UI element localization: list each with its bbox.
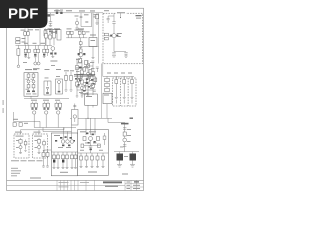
box C second column xyxy=(24,140,27,152)
socket cell dividers xyxy=(120,78,128,106)
capacitor C131 xyxy=(79,46,82,47)
box C contents xyxy=(19,138,22,154)
capacitor C153 xyxy=(91,61,94,62)
resistor R157 xyxy=(76,82,79,86)
transistor QA3 xyxy=(70,140,74,144)
resistor R136 xyxy=(79,47,82,52)
chain wire xyxy=(80,38,82,46)
wire to right xyxy=(81,45,99,47)
dark node blob2 xyxy=(86,82,89,84)
ground G5 xyxy=(124,56,127,57)
svg-text:PDF: PDF xyxy=(8,6,39,23)
K3 label xyxy=(104,95,109,96)
box A group GA3 xyxy=(71,152,78,169)
right chain wire xyxy=(124,123,126,152)
socket element S2 xyxy=(123,76,126,103)
transistor group T1 xyxy=(31,102,38,128)
bus wire S2 xyxy=(43,125,72,132)
ground G11 xyxy=(92,58,95,59)
ground G9 xyxy=(51,57,54,58)
transistor QB1 xyxy=(89,137,93,147)
drop R22 xyxy=(27,45,30,58)
module box A xyxy=(51,133,77,176)
labels enclosure right xyxy=(104,10,142,18)
box B bottom element E5 xyxy=(102,153,105,168)
long wire pair xyxy=(101,64,102,119)
drop R23 xyxy=(34,45,37,57)
transistor group T2 xyxy=(43,102,50,128)
transistor QA2 xyxy=(66,140,70,144)
wire drop C101 xyxy=(50,13,52,22)
tier label xyxy=(23,62,40,69)
PSU internals column2 xyxy=(32,73,35,93)
relay box K3 xyxy=(103,93,112,103)
label J3 xyxy=(56,69,61,77)
box B inner specks xyxy=(80,143,103,151)
resistor R167 xyxy=(83,87,86,91)
transistor QR1 xyxy=(123,138,127,142)
ground G10 xyxy=(79,59,82,61)
capacitor C101 xyxy=(49,22,52,26)
capacitor CR2 xyxy=(123,145,126,146)
stub wires R111 xyxy=(25,28,28,32)
module box B xyxy=(78,130,109,176)
extra mid specks xyxy=(76,59,95,94)
resistor RB1 xyxy=(83,137,86,141)
transistor Q153 xyxy=(78,79,81,82)
resistor R201 xyxy=(104,33,108,36)
label box C xyxy=(16,136,24,137)
labels K1 xyxy=(90,35,96,42)
box D contents xyxy=(37,138,40,154)
capacitor C202 xyxy=(112,53,115,55)
drop R26 xyxy=(46,45,49,56)
label row P xyxy=(25,69,37,70)
resistor R104 xyxy=(96,13,99,23)
bottom label mid xyxy=(80,93,86,94)
title block right cell lines xyxy=(125,184,144,187)
connector P1 xyxy=(16,38,20,44)
diode D101 xyxy=(48,14,55,16)
socket element S3 xyxy=(131,76,134,103)
capacitor C201 xyxy=(112,22,115,34)
PSU drop wire xyxy=(30,96,32,98)
margin ticks xyxy=(3,100,4,113)
PSU inner specks xyxy=(26,79,34,90)
label J2 xyxy=(45,69,50,78)
text labels Q101 xyxy=(75,16,84,31)
resistor R121 xyxy=(45,34,48,39)
wire link R xyxy=(108,118,125,122)
box B right vertical xyxy=(103,133,106,145)
ground G4 xyxy=(112,56,116,57)
net labels top rail xyxy=(54,10,95,11)
ground G1 xyxy=(49,26,52,27)
bus wire A xyxy=(16,44,53,46)
connector J3 xyxy=(56,79,63,94)
bars on loop left xyxy=(80,16,83,17)
box A mid wire xyxy=(51,151,77,153)
box B mid wire upper xyxy=(84,145,100,147)
labels Q201 xyxy=(117,33,122,37)
resistor R159 xyxy=(79,59,82,63)
K2 antenna mark xyxy=(86,92,88,96)
specks near node B xyxy=(94,14,98,17)
dashed enclosure (deflection unit) xyxy=(103,13,142,64)
bus wire under PSU xyxy=(24,98,69,100)
Q201 wing marks xyxy=(110,35,118,37)
PSU text xyxy=(26,93,37,96)
IC U1 xyxy=(57,30,61,41)
resistor RB2 xyxy=(97,137,100,141)
cluster M1 labels xyxy=(44,29,55,30)
resistor R112 xyxy=(27,32,30,35)
resistor R168 xyxy=(94,78,97,82)
label above box C xyxy=(15,132,22,133)
labels left bus xyxy=(13,119,28,124)
heavy bus wire xyxy=(74,75,95,77)
label under Q121 xyxy=(50,61,57,66)
capacitor C204 xyxy=(107,16,114,23)
capacitor C203 xyxy=(124,53,127,56)
label above box D xyxy=(34,132,41,133)
capacitor C105 xyxy=(85,21,88,22)
PDF badge xyxy=(0,0,48,28)
wire K1 up xyxy=(92,13,94,38)
resistor R113 xyxy=(44,31,47,37)
box D specks xyxy=(35,140,38,148)
resistor R158 xyxy=(92,84,95,88)
resistor R151 xyxy=(76,66,79,70)
wire into enclosure C xyxy=(21,128,65,135)
resistor R134 xyxy=(82,31,85,34)
transistor Q101 xyxy=(75,18,78,28)
box B bottom element E4 xyxy=(96,153,99,168)
mid column labels xyxy=(78,61,93,86)
revision table dividers xyxy=(57,180,137,190)
box B bottom element E3 xyxy=(91,153,94,168)
group Q141 xyxy=(64,70,74,90)
cluster M2 drops xyxy=(68,34,84,37)
stub wire xyxy=(120,13,121,18)
resistor R123 xyxy=(53,33,56,39)
resistor RB3 xyxy=(81,144,84,148)
box C specks xyxy=(16,140,19,148)
capacitor CB1 xyxy=(89,146,92,153)
link resistor R135 xyxy=(79,42,82,45)
resistor R111 xyxy=(24,32,27,35)
transistor Q121 xyxy=(50,47,56,57)
loop wire L1 xyxy=(81,13,92,27)
capacitor C152 xyxy=(96,67,99,72)
box B labels xyxy=(80,131,96,132)
transistor row: labels xyxy=(31,100,60,101)
tier circles Q21 Q22 xyxy=(34,58,40,65)
net labels row xyxy=(24,43,45,44)
box A group GA1 xyxy=(53,152,60,169)
resistor RR1 xyxy=(123,132,126,136)
transistor group T3 xyxy=(55,102,62,128)
resistor R202 xyxy=(104,37,108,40)
title block mid line xyxy=(7,184,125,186)
connector J2 xyxy=(44,81,51,95)
right chain labels xyxy=(120,123,131,148)
resistor R162 xyxy=(19,123,22,127)
box B mid wire xyxy=(78,152,109,154)
left of box A elements xyxy=(42,150,51,167)
box A bottom label xyxy=(60,172,68,173)
enclosure label xyxy=(116,12,126,15)
capacitor C154 xyxy=(93,90,96,91)
box B top wires xyxy=(86,118,95,135)
wire drops under badge xyxy=(25,29,46,46)
resistor R122 xyxy=(49,35,52,39)
transistor Q151 xyxy=(80,86,83,89)
ground G2 xyxy=(75,28,78,29)
resistor R152 xyxy=(81,70,84,74)
resistor RB4 xyxy=(98,144,101,148)
cluster M2 labels xyxy=(67,28,90,32)
wire emitter Q201 xyxy=(113,38,115,52)
resistor R153 xyxy=(87,64,90,68)
resistor R165 xyxy=(89,70,92,74)
module box PSU xyxy=(24,73,38,97)
cluster M1 wires xyxy=(46,31,54,45)
bank bus wire xyxy=(103,75,134,77)
left bus wire xyxy=(14,112,41,128)
box B dark cluster xyxy=(86,133,96,151)
resistor R131 xyxy=(67,31,70,34)
PSU internals column1 xyxy=(27,73,30,93)
labels P1 xyxy=(22,38,26,43)
transistor Q201 xyxy=(112,34,116,38)
box A group GA2 xyxy=(62,152,69,169)
wire links mid xyxy=(77,63,96,85)
bank labels xyxy=(107,73,132,74)
resistor R155 xyxy=(87,78,90,82)
resistor R164 xyxy=(83,68,86,72)
notes text xyxy=(11,168,21,177)
label box D xyxy=(34,136,42,137)
box D second column xyxy=(43,140,46,152)
posistor T1 xyxy=(17,45,20,67)
labels under badge xyxy=(28,29,39,30)
ground G16 xyxy=(65,90,73,91)
K2 pins xyxy=(88,105,93,107)
resistor R154 xyxy=(81,80,84,84)
box A dark cluster xyxy=(55,136,75,146)
dashed box D xyxy=(33,134,48,158)
label PT pair xyxy=(122,156,128,175)
bus wire S xyxy=(34,127,76,129)
resistor R161 xyxy=(13,123,16,127)
transistor Q152 xyxy=(86,72,89,75)
title text xyxy=(30,178,140,190)
box B bottom element E1 xyxy=(80,153,83,168)
capacitor CR1 xyxy=(123,128,126,129)
dense label cluster xyxy=(48,29,61,34)
relay K1 xyxy=(89,38,97,47)
box A top wires xyxy=(64,128,72,140)
K2 label xyxy=(86,96,92,97)
dense cluster specks xyxy=(75,78,95,92)
dashed box C xyxy=(14,134,29,158)
transistor Q131 xyxy=(78,53,86,59)
stacked resistor RS1 xyxy=(105,76,109,91)
relay box K2 xyxy=(85,94,98,105)
box B bottom label xyxy=(88,172,97,173)
socket element S1 xyxy=(115,76,118,103)
drop R24 xyxy=(37,45,40,58)
resistor R133 xyxy=(78,31,81,34)
wire base Q201 xyxy=(108,35,112,37)
resistor R166 xyxy=(78,75,81,79)
wire K1 down xyxy=(92,47,94,58)
power transistor PT1 xyxy=(117,152,124,168)
label R111 xyxy=(21,30,25,31)
mid column wires xyxy=(77,58,93,96)
transistor QA1 xyxy=(61,140,65,144)
wire in enclosure xyxy=(113,13,115,22)
fuse F1 on rail xyxy=(56,10,64,14)
caption line xyxy=(11,160,43,161)
transistor Q154 xyxy=(83,83,86,86)
box A labels xyxy=(54,135,71,148)
mid column grounds xyxy=(76,95,90,97)
resistor R132 xyxy=(70,31,73,34)
dark node blob1 xyxy=(79,67,82,69)
CRT socket dashed container xyxy=(113,78,137,106)
border frame xyxy=(7,8,144,190)
cluster M2 bus xyxy=(66,37,87,39)
top rail wire xyxy=(46,12,103,14)
label below socket xyxy=(130,118,134,119)
ground G3 xyxy=(95,23,98,24)
bus wire bottom right xyxy=(114,151,139,153)
drop R25 xyxy=(43,45,46,57)
drop R21 xyxy=(24,45,27,57)
resistor R160 xyxy=(85,61,88,65)
box B bottom element E2 xyxy=(85,153,88,168)
title block top line xyxy=(7,179,144,181)
wire bus Q xyxy=(70,104,112,121)
long wire right xyxy=(98,13,100,64)
IC box U2 xyxy=(72,104,79,126)
resistor R156 xyxy=(92,72,95,76)
power transistor PT2 xyxy=(130,152,137,168)
label loop xyxy=(84,14,89,15)
wire branch xyxy=(114,51,126,53)
